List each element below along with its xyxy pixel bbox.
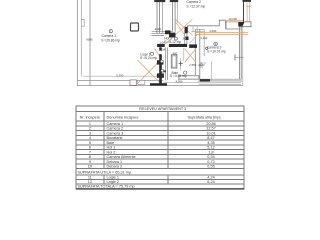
column square symbol bbox=[131, 23, 139, 31]
wire orange bucatarie X bbox=[185, 49, 197, 63]
svg-text:Camera 1: Camera 1 bbox=[102, 34, 117, 38]
fixture bathtub baie bbox=[179, 75, 200, 79]
wire kitchen pipe line bbox=[180, 58, 182, 71]
wire inner west wall line bbox=[81, 0, 84, 76]
svg-text:5,250: 5,250 bbox=[116, 74, 123, 78]
wire hol east wall pair bbox=[185, 28, 187, 45]
svg-text:Suprafata utila [mp]: Suprafata utila [mp] bbox=[188, 115, 221, 119]
svg-text:5,12: 5,12 bbox=[207, 146, 214, 150]
svg-text:20,86: 20,86 bbox=[206, 122, 216, 126]
svg-text:S =5.12 mp: S =5.12 mp bbox=[164, 40, 181, 44]
svg-text:5,04: 5,04 bbox=[160, 48, 166, 52]
svg-text:11: 11 bbox=[88, 175, 92, 179]
svg-text:10,01: 10,01 bbox=[206, 131, 216, 135]
svg-text:12: 12 bbox=[88, 180, 92, 184]
dim text 2800 top right bbox=[243, 0, 252, 2]
table row11 line bbox=[76, 178, 244, 180]
wire camera1 south dim line bbox=[83, 75, 157, 77]
dim text 3500 top A bbox=[154, 0, 165, 2]
wire central wall line D bbox=[177, 0, 179, 23]
svg-text:Camera 1: Camera 1 bbox=[107, 122, 124, 126]
wire orange horizontal top right bbox=[225, 20, 243, 22]
svg-text:Nr. incapere: Nr. incapere bbox=[80, 115, 100, 119]
svg-text:4,24: 4,24 bbox=[207, 175, 214, 179]
wall dark door frame bbox=[186, 37, 189, 41]
wire orange logie1 X bbox=[138, 60, 161, 84]
svg-text:2,550: 2,550 bbox=[189, 63, 196, 67]
wire camera2 south wall bbox=[187, 25, 219, 27]
svg-text:Bucatarie: Bucatarie bbox=[107, 136, 123, 140]
wire outer east line bbox=[242, 27, 244, 86]
wire hol2 door frames bbox=[193, 26, 197, 32]
wire camera2 wall step bbox=[219, 20, 240, 29]
svg-text:9000: 9000 bbox=[86, 37, 93, 41]
svg-text:Baie: Baie bbox=[107, 141, 115, 145]
wire camera1 south window line bbox=[77, 79, 163, 81]
svg-text:900: 900 bbox=[173, 52, 178, 56]
wire camera3 east wall bbox=[240, 27, 242, 80]
wire orange dim band middle bbox=[196, 33, 248, 35]
label circle 7 bbox=[206, 47, 208, 49]
wall dark camara bbox=[189, 44, 197, 48]
wire door swing camara bbox=[190, 35, 198, 44]
wire camera3 inner line 2 bbox=[210, 61, 212, 82]
wire orange diag hol X bbox=[165, 19, 193, 45]
wire hol2 west line bbox=[186, 26, 188, 32]
dimension number caps at top bbox=[154, 0, 251, 2]
svg-text:1,04: 1,04 bbox=[160, 40, 166, 44]
svg-text:1,8: 1,8 bbox=[208, 150, 213, 154]
svg-text:900: 900 bbox=[183, 37, 188, 41]
svg-text:Camera 2: Camera 2 bbox=[107, 127, 124, 131]
svg-text:Debara 2: Debara 2 bbox=[107, 165, 123, 169]
wire camera1 west inner line bbox=[89, 0, 91, 86]
svg-text:SUPRAFATA UTILA = 65,31 mp: SUPRAFATA UTILA = 65,31 mp bbox=[78, 171, 132, 175]
svg-text:5: 5 bbox=[89, 141, 91, 145]
table data row lines bbox=[76, 126, 244, 169]
wire bucatarie east line bbox=[183, 48, 185, 61]
wire hol2 north line bbox=[191, 31, 204, 33]
svg-text:0,55: 0,55 bbox=[207, 165, 214, 169]
svg-text:9: 9 bbox=[89, 160, 91, 164]
svg-text:S =4.35 mp: S =4.35 mp bbox=[170, 74, 187, 78]
svg-text:6: 6 bbox=[89, 146, 91, 150]
svg-text:Camara Alimente: Camara Alimente bbox=[107, 155, 136, 159]
orange dimension lines bbox=[138, 3, 251, 84]
svg-text:8,47: 8,47 bbox=[207, 136, 214, 140]
label camera1 circle bbox=[109, 30, 112, 33]
wire camera2 north wall line bbox=[226, 21, 239, 23]
svg-text:2600: 2600 bbox=[155, 27, 162, 31]
wire camera3 north line bbox=[196, 29, 205, 31]
door gap baie wall bbox=[159, 51, 163, 55]
wall outline top right bbox=[241, 22, 251, 29]
svg-text:RELEVEU APARTAMENT 3: RELEVEU APARTAMENT 3 bbox=[139, 107, 186, 111]
table header row line bbox=[76, 120, 244, 122]
table row12 line bbox=[76, 183, 244, 185]
wall dark junction bbox=[165, 30, 171, 34]
wire bucatarie west wall bbox=[166, 48, 168, 81]
wire orange tick right bbox=[246, 6, 251, 8]
table outer border bbox=[76, 106, 244, 189]
label camera3 circle bbox=[214, 42, 217, 45]
wire orange small diag left bbox=[155, 49, 161, 58]
svg-text:S =20.86 mp: S =20.86 mp bbox=[101, 38, 120, 42]
svg-text:12,57: 12,57 bbox=[206, 127, 216, 131]
dark wall fills bbox=[150, 0, 245, 86]
fixture rect kitchen bbox=[171, 55, 177, 68]
svg-text:3: 3 bbox=[89, 131, 91, 135]
wire outer bottom line bbox=[77, 85, 243, 87]
svg-text:SUPRAFATA TOTALA = 75,79 mp: SUPRAFATA TOTALA = 75,79 mp bbox=[78, 185, 135, 189]
svg-text:Debara 1: Debara 1 bbox=[107, 160, 123, 164]
svg-text:1: 1 bbox=[89, 122, 91, 126]
label circle 10 on blob bbox=[161, 69, 164, 72]
wire east wall tick bbox=[236, 56, 244, 58]
svg-text:Logie 2: Logie 2 bbox=[107, 180, 119, 184]
wire central wall line C bbox=[162, 0, 164, 33]
svg-text:4: 4 bbox=[89, 136, 91, 140]
svg-text:S =12.37 mp: S =12.37 mp bbox=[186, 4, 205, 8]
table title row line bbox=[76, 110, 244, 112]
dim text 3500 top B bbox=[170, 0, 178, 2]
label circle 9 on blob bbox=[160, 60, 163, 63]
svg-text:0,72: 0,72 bbox=[207, 160, 214, 164]
wire central wall pair A bbox=[157, 0, 160, 34]
svg-text:S =10.01 mp: S =10.01 mp bbox=[207, 50, 226, 54]
wall dark baie west strip bbox=[159, 47, 162, 83]
svg-text:Logie 1: Logie 1 bbox=[107, 175, 119, 179]
svg-text:4,050: 4,050 bbox=[176, 80, 183, 84]
mark cross bucatarie bbox=[179, 61, 183, 66]
svg-text:4,000: 4,000 bbox=[209, 29, 216, 33]
svg-text:4,35: 4,35 bbox=[207, 141, 214, 145]
wall dark bottom bar bbox=[150, 83, 167, 85]
wire hol north wall bbox=[152, 31, 173, 35]
svg-text:2430: 2430 bbox=[200, 61, 204, 68]
table bottom border thick bbox=[76, 188, 244, 190]
svg-text:2: 2 bbox=[89, 127, 91, 131]
wire camera3 window band bbox=[199, 78, 241, 80]
wire middle bottom lines bbox=[163, 82, 199, 84]
wire tick camara bbox=[204, 62, 207, 64]
pillar bottom left bbox=[130, 80, 136, 86]
svg-text:Camera 3: Camera 3 bbox=[107, 131, 124, 135]
wire camera2 east dark line bbox=[242, 0, 245, 22]
svg-text:1,100: 1,100 bbox=[200, 36, 207, 40]
svg-text:10: 10 bbox=[88, 165, 92, 169]
wall dark top right bbox=[238, 22, 244, 27]
svg-text:3400: 3400 bbox=[233, 54, 237, 61]
svg-text:Hol 2: Hol 2 bbox=[107, 150, 116, 154]
svg-text:Denumire incapere: Denumire incapere bbox=[107, 115, 139, 119]
svg-text:Hol 1: Hol 1 bbox=[107, 146, 116, 150]
svg-text:0,94: 0,94 bbox=[207, 155, 214, 159]
wall dark window block bbox=[200, 79, 210, 81]
wire central wall pair B bbox=[172, 0, 175, 32]
svg-text:10,000: 10,000 bbox=[228, 17, 237, 21]
svg-text:6,24: 6,24 bbox=[207, 180, 214, 184]
svg-text:S =4.24 mp: S =4.24 mp bbox=[140, 56, 157, 60]
wire camera3 west wall bbox=[195, 29, 200, 79]
wall dark hol east blob bbox=[185, 27, 188, 34]
wire camera2 step inner bbox=[225, 20, 227, 29]
wire outer west wall line bbox=[76, 0, 78, 86]
wall dark bar hol south bbox=[157, 44, 165, 47]
door leaf box bbox=[138, 80, 145, 84]
table utila row line bbox=[76, 174, 244, 176]
wire orange verticals right bbox=[247, 3, 249, 22]
wire orange door swing bbox=[176, 23, 184, 35]
svg-text:8: 8 bbox=[89, 155, 91, 159]
svg-text:7: 7 bbox=[89, 150, 91, 154]
table col separators bbox=[103, 111, 105, 183]
wire camera3 inner line bbox=[203, 30, 205, 56]
tiny texts in plan bbox=[86, 0, 237, 84]
